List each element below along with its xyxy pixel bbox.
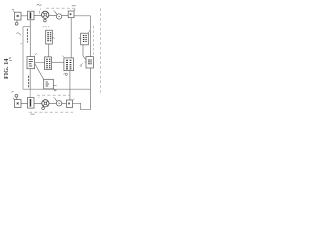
ref numeral leader left bus upper: [16, 33, 21, 35]
wire top main line: [21, 14, 90, 16]
ref numeral bottom left: [31, 114, 35, 115]
wire mid horizontal y89.2: [23, 88, 90, 90]
box E lower middle: [44, 79, 56, 91]
wire E box right stub: [53, 84, 56, 86]
valve V2 box bottom-left: [15, 100, 22, 108]
wire J to stack1 vertical: [48, 44, 50, 57]
dashed enclosure top edge: [46, 7, 76, 9]
wire left branch horizontal y26.6: [23, 26, 30, 28]
wire bottom-right U jog: [78, 103, 90, 109]
wire stack1 to stack2 horizontal: [52, 61, 64, 63]
compressor C1 fan circle: [42, 11, 49, 22]
regulator B1 box: [28, 11, 34, 20]
label text above J: [43, 26, 50, 28]
dashed enclosure right outer edge: [100, 9, 102, 96]
sensor D2 circle with dot: [55, 98, 62, 106]
wire H1 bottom to box I hook: [83, 45, 86, 60]
node circle under stack2: [65, 73, 67, 75]
wire F to stack1 horizontal: [35, 61, 45, 63]
ref tick near C2: [38, 97, 39, 98]
wire bottom main line: [21, 102, 78, 104]
wire E1 down to stack2: [70, 18, 72, 58]
stack2 box: [63, 56, 74, 71]
dashed enclosure right inner edge: [93, 26, 95, 56]
ref numeral under E box: [55, 89, 57, 92]
valve E2 box: [67, 100, 73, 108]
wire right bus vertical: [89, 16, 91, 110]
sensor D1 circle with dot: [55, 12, 62, 20]
ref numeral near A2: [12, 92, 15, 100]
ref numeral 21 top right: [72, 5, 76, 6]
ref tick near D2 tail: [53, 97, 55, 100]
regulator B2 box: [28, 98, 35, 109]
valve V1 box top-left: [15, 12, 22, 20]
unit F box left middle: [27, 53, 37, 68]
wire B1 to F vertical x30.3: [29, 20, 31, 57]
wire left bus vertical x23: [22, 27, 24, 90]
ref numeral under stack2: [63, 73, 65, 76]
dashed bottom edge y112: [29, 111, 73, 113]
pilot circle of V1: [15, 20, 18, 25]
controller J box: [46, 30, 55, 44]
box I on right bus: [85, 57, 94, 68]
wire diagonal F to box E: [35, 64, 44, 80]
svg-text:FIG. 14: FIG. 14: [3, 59, 10, 79]
stack1 box: [45, 57, 52, 70]
vertical label 34,100 upper: [26, 29, 28, 43]
box H1 right upper: [79, 33, 88, 45]
dashed mid lower edge y95: [37, 94, 70, 96]
ref numeral 31 left: [9, 58, 12, 61]
compressor C2 fan circle: [42, 100, 49, 110]
ref numeral 30 top: [37, 4, 42, 5]
wire stack2 down through y89 to E2: [69, 71, 71, 101]
vertical label 34,100 lower: [28, 76, 30, 88]
wire F to bottom bus vertical: [29, 69, 31, 90]
wire bus to B2 vertical: [29, 89, 31, 97]
ref tick fan C1 flange: [38, 11, 40, 14]
ref tick near C1: [39, 8, 42, 9]
node circle left of box I: [80, 63, 83, 67]
ref tick near E2: [73, 99, 75, 101]
ref tick near D1 tail: [53, 10, 55, 13]
wire H1 top connector to right bus: [88, 30, 90, 34]
valve E1 box: [68, 9, 75, 18]
ref numeral near A1: [12, 9, 15, 12]
ref tick left bus: [20, 42, 22, 45]
pilot circle of V2: [15, 94, 18, 99]
